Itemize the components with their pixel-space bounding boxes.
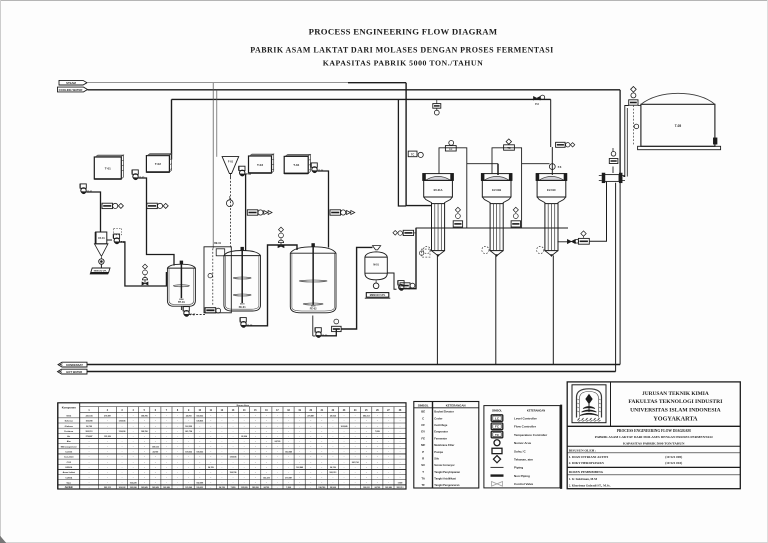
- svg-text:-: -: [233, 466, 234, 469]
- svg-text:1. Ir. Sukirman, M.M: 1. Ir. Sukirman, M.M: [569, 477, 597, 481]
- svg-text:-: -: [344, 456, 345, 459]
- svg-text:-: -: [155, 471, 156, 474]
- svg-text:-: -: [344, 414, 345, 417]
- svg-text:Tangki Pengenceran: Tangki Pengenceran: [434, 483, 460, 487]
- svg-text:241,724: 241,724: [86, 414, 94, 417]
- svg-text:KETERANGAN: KETERANGAN: [527, 409, 545, 413]
- svg-text:-: -: [177, 476, 178, 479]
- svg-text:-: -: [233, 435, 234, 438]
- svg-text:28,904: 28,904: [330, 486, 337, 489]
- svg-text:-: -: [266, 435, 267, 438]
- svg-text:Glukosa: Glukosa: [65, 426, 74, 428]
- svg-text:24,769: 24,769: [186, 414, 192, 417]
- svg-text:SiO2: SiO2: [66, 415, 72, 417]
- svg-text:24,769: 24,769: [330, 466, 336, 469]
- svg-text:-: -: [233, 420, 234, 423]
- svg-text:PABRIK ASAM LAKTAT DARI MOLASE: PABRIK ASAM LAKTAT DARI MOLASES DENGAN P…: [250, 45, 553, 54]
- svg-text:-: -: [177, 482, 178, 485]
- svg-text:-: -: [89, 476, 90, 479]
- svg-text:Piping: Piping: [514, 466, 523, 470]
- svg-text:LC: LC: [449, 148, 452, 151]
- svg-text:Evaporator: Evaporator: [434, 430, 448, 434]
- svg-text:-: -: [344, 435, 345, 438]
- svg-text:582,313: 582,313: [86, 431, 93, 433]
- svg-text:162,849: 162,849: [385, 486, 392, 489]
- svg-text:Cooler: Cooler: [434, 416, 442, 420]
- svg-text:7,899: 7,899: [231, 487, 236, 489]
- svg-text:-: -: [155, 456, 156, 459]
- svg-text:-: -: [377, 461, 378, 464]
- svg-text:-: -: [266, 425, 267, 428]
- svg-text:T-04: T-04: [293, 163, 299, 167]
- svg-text:582,313: 582,313: [104, 487, 111, 489]
- svg-text:-: -: [344, 471, 345, 474]
- svg-text:182,098: 182,098: [130, 487, 137, 489]
- svg-text:(10 521 005): (10 521 005): [665, 455, 682, 459]
- svg-text:P: P: [422, 450, 424, 454]
- svg-text:-: -: [377, 414, 378, 417]
- svg-text:-: -: [89, 445, 90, 448]
- svg-text:-: -: [377, 420, 378, 423]
- svg-text:M-01: M-01: [373, 264, 379, 267]
- svg-text:-: -: [321, 445, 322, 448]
- svg-text:T: T: [422, 470, 424, 474]
- svg-text:EV-01B: EV-01B: [492, 188, 501, 192]
- svg-text:KONDENSAT: KONDENSAT: [66, 363, 83, 367]
- svg-text:-: -: [266, 451, 267, 454]
- svg-text:-: -: [233, 440, 234, 443]
- svg-text:28,904: 28,904: [241, 435, 248, 438]
- svg-text:-: -: [155, 425, 156, 428]
- svg-text:FAKULTAS TEKNOLOGI INDUSTRI: FAKULTAS TEKNOLOGI INDUSTRI: [628, 399, 722, 405]
- svg-text:-: -: [177, 451, 178, 454]
- svg-text:162,849: 162,849: [163, 486, 170, 489]
- svg-text:279,887: 279,887: [104, 415, 111, 417]
- svg-text:-: -: [266, 482, 267, 485]
- svg-text:TA: TA: [421, 477, 425, 481]
- svg-text:1. DIAN FITRIANI ASTITI: 1. DIAN FITRIANI ASTITI: [569, 455, 609, 459]
- svg-text:-: -: [321, 461, 322, 464]
- svg-text:-: -: [210, 420, 211, 423]
- svg-text:-: -: [89, 440, 90, 443]
- svg-text:-: -: [344, 430, 345, 433]
- svg-text:169,032: 169,032: [196, 415, 203, 417]
- svg-text:Screw Conveyor: Screw Conveyor: [434, 463, 454, 467]
- svg-text:24,769: 24,769: [208, 466, 214, 469]
- svg-text:-: -: [377, 456, 378, 459]
- svg-text:Asam Laktat: Asam Laktat: [63, 471, 76, 474]
- svg-text:2. Kharisma Gulyadi ST., M.Sc.: 2. Kharisma Gulyadi ST., M.Sc.: [569, 483, 611, 487]
- svg-text:-: -: [266, 471, 267, 474]
- svg-text:-: -: [266, 456, 267, 459]
- svg-text:-: -: [233, 482, 234, 485]
- svg-text:-: -: [288, 482, 289, 485]
- svg-text:-: -: [288, 445, 289, 448]
- svg-text:162,849: 162,849: [341, 425, 348, 428]
- svg-text:UNIVERSITAS ISLAM INDONESIA: UNIVERSITAS ISLAM INDONESIA: [630, 407, 721, 413]
- svg-text:-: -: [288, 456, 289, 459]
- svg-text:2. DIKY HERDIYAWAN: 2. DIKY HERDIYAWAN: [569, 461, 605, 465]
- svg-text:-: -: [233, 430, 234, 433]
- svg-text:-: -: [177, 435, 178, 438]
- svg-text:-: -: [89, 456, 90, 459]
- svg-text:582,313: 582,313: [363, 415, 370, 417]
- svg-text:182,098: 182,098: [252, 487, 259, 489]
- svg-text:TF: TF: [421, 483, 425, 487]
- svg-text:-: -: [377, 476, 378, 479]
- svg-text:P-03: P-03: [246, 174, 252, 176]
- svg-text:COOLING WATER: COOLING WATER: [59, 88, 83, 92]
- svg-text:T-05: T-05: [675, 124, 682, 128]
- svg-text:-: -: [155, 414, 156, 417]
- svg-text:-: -: [377, 440, 378, 443]
- svg-text:-: -: [89, 461, 90, 464]
- svg-text:198,786: 198,786: [141, 431, 148, 433]
- svg-text:182,098: 182,098: [196, 483, 203, 485]
- svg-text:SIMBOL: SIMBOL: [492, 409, 503, 413]
- svg-text:-: -: [210, 476, 211, 479]
- svg-text:-: -: [344, 482, 345, 485]
- svg-text:FE-01: FE-01: [239, 306, 246, 309]
- svg-text:JURUSAN TEKNIK KIMIA: JURUSAN TEKNIK KIMIA: [642, 391, 709, 397]
- svg-text:Bucket Elevator: Bucket Elevator: [434, 410, 454, 414]
- svg-text:EV: EV: [421, 430, 425, 434]
- svg-text:-: -: [89, 482, 90, 485]
- svg-text:BE-01: BE-01: [214, 242, 221, 245]
- svg-text:-: -: [344, 451, 345, 454]
- svg-text:-: -: [321, 440, 322, 443]
- svg-text:109,032: 109,032: [152, 446, 159, 448]
- svg-text:-: -: [266, 440, 267, 443]
- svg-text:Ca-Laktat: Ca-Laktat: [64, 456, 74, 459]
- svg-text:CF-01: CF-01: [98, 237, 105, 240]
- svg-text:279,887: 279,887: [307, 415, 314, 417]
- svg-text:TC: TC: [507, 147, 510, 150]
- svg-text:-: -: [377, 451, 378, 454]
- svg-text:-: -: [122, 456, 123, 459]
- svg-text:-: -: [377, 482, 378, 485]
- svg-text:162,849: 162,849: [285, 451, 292, 454]
- svg-text:-: -: [344, 440, 345, 443]
- svg-text:-: -: [177, 425, 178, 428]
- svg-text:DISUSUN OLEH :: DISUSUN OLEH :: [569, 448, 597, 452]
- svg-text:T-03: T-03: [257, 163, 263, 167]
- svg-text:-: -: [155, 476, 156, 479]
- svg-text:Level Controller: Level Controller: [514, 416, 538, 420]
- svg-text:MF: MF: [421, 443, 425, 447]
- svg-text:-: -: [233, 445, 234, 448]
- svg-text:PROCESS ENGINEERING FLOW DIAGR: PROCESS ENGINEERING FLOW DIAGRAM: [617, 429, 692, 433]
- svg-text:109,032: 109,032: [363, 487, 370, 489]
- svg-text:-: -: [122, 482, 123, 485]
- svg-text:-: -: [210, 425, 211, 428]
- svg-text:279,887: 279,887: [86, 436, 93, 438]
- svg-text:P-6: P-6: [535, 103, 539, 106]
- svg-text:Tekanan, atm: Tekanan, atm: [514, 457, 533, 461]
- svg-text:KAPASITAS PABRIK 5000 TON./TAH: KAPASITAS PABRIK 5000 TON./TAHUN: [323, 59, 484, 68]
- svg-text:HOT WATER: HOT WATER: [66, 370, 82, 374]
- svg-text:24,769: 24,769: [374, 486, 380, 489]
- svg-text:-: -: [344, 476, 345, 479]
- svg-text:-: -: [266, 414, 267, 417]
- svg-text:-: -: [122, 435, 123, 438]
- svg-text:Tangki Asidifikasi: Tangki Asidifikasi: [434, 477, 456, 481]
- svg-text:-: -: [210, 435, 211, 438]
- svg-text:125,269: 125,269: [185, 487, 192, 489]
- svg-text:Air: Air: [67, 435, 70, 438]
- svg-text:C: C: [422, 416, 424, 420]
- svg-text:198,786: 198,786: [230, 472, 237, 474]
- svg-text:-: -: [122, 471, 123, 474]
- svg-text:-: -: [288, 420, 289, 423]
- svg-text:241,724: 241,724: [185, 430, 193, 433]
- svg-text:-: -: [321, 425, 322, 428]
- svg-text:Non Piping: Non Piping: [514, 474, 530, 478]
- svg-text:-: -: [377, 445, 378, 448]
- svg-text:Komponen: Komponen: [62, 405, 76, 409]
- svg-text:PABRIK ASAM LAKTAT DARI MOLASE: PABRIK ASAM LAKTAT DARI MOLASES DENGAN P…: [595, 435, 714, 439]
- svg-text:-: -: [321, 430, 322, 433]
- svg-text:TC: TC: [411, 154, 415, 157]
- svg-text:C-01: C-01: [609, 179, 615, 181]
- svg-text:-: -: [177, 466, 178, 469]
- svg-text:Nomor Arus: Nomor Arus: [237, 404, 250, 407]
- svg-text:162,849: 162,849: [152, 486, 159, 489]
- svg-text:-: -: [155, 440, 156, 443]
- svg-text:24,769: 24,769: [86, 425, 92, 428]
- svg-text:-: -: [122, 466, 123, 469]
- svg-text:-: -: [266, 420, 267, 423]
- svg-text:F-01: F-01: [228, 161, 234, 164]
- svg-text:582,313: 582,313: [397, 487, 404, 489]
- svg-text:109,032: 109,032: [185, 452, 192, 454]
- svg-text:Fermenter: Fermenter: [434, 436, 447, 440]
- svg-text:TP-01: TP-01: [178, 301, 185, 304]
- svg-text:139,836: 139,836: [230, 457, 237, 459]
- svg-text:SIMBOL: SIMBOL: [418, 403, 429, 407]
- svg-text:-: -: [177, 440, 178, 443]
- svg-text:109,032: 109,032: [196, 487, 203, 489]
- svg-text:-: -: [266, 461, 267, 464]
- svg-text:-: -: [288, 471, 289, 474]
- svg-text:139,836: 139,836: [119, 421, 126, 423]
- svg-text:CaSO4: CaSO4: [65, 476, 73, 479]
- svg-text:-: -: [266, 430, 267, 433]
- svg-text:28,904: 28,904: [330, 414, 337, 417]
- svg-text:-: -: [377, 466, 378, 469]
- svg-text:Centrifuge: Centrifuge: [434, 423, 448, 427]
- svg-text:Flow Controller: Flow Controller: [514, 425, 537, 429]
- svg-text:-: -: [177, 420, 178, 423]
- svg-text:-: -: [321, 435, 322, 438]
- svg-text:-: -: [377, 471, 378, 474]
- svg-text:MENUJU UPL: MENUJU UPL: [370, 294, 386, 297]
- svg-text:-: -: [89, 471, 90, 474]
- svg-text:CaCO3: CaCO3: [65, 452, 73, 454]
- svg-text:H2SO4: H2SO4: [65, 466, 73, 469]
- svg-text:-: -: [288, 440, 289, 443]
- svg-text:KETERANGAN: KETERANGAN: [446, 403, 466, 407]
- svg-text:162,849: 162,849: [296, 466, 303, 469]
- svg-text:-: -: [377, 425, 378, 428]
- svg-text:-: -: [266, 445, 267, 448]
- svg-text:-: -: [210, 445, 211, 448]
- svg-text:YOGYAKARTA: YOGYAKARTA: [653, 416, 698, 423]
- svg-text:-: -: [321, 420, 322, 423]
- svg-text:-: -: [377, 435, 378, 438]
- svg-text:-: -: [321, 451, 322, 454]
- svg-text:7,899: 7,899: [286, 487, 291, 489]
- svg-text:DOSEN PEMBIMBING: DOSEN PEMBIMBING: [569, 470, 604, 474]
- svg-text:-: -: [155, 430, 156, 433]
- svg-text:241,724: 241,724: [352, 461, 360, 464]
- svg-text:162,849: 162,849: [141, 486, 148, 489]
- svg-text:STEAM: STEAM: [66, 81, 76, 85]
- svg-text:-: -: [288, 461, 289, 464]
- svg-text:-: -: [233, 461, 234, 464]
- svg-text:139,836: 139,836: [119, 431, 126, 433]
- svg-text:7,899: 7,899: [398, 483, 403, 485]
- svg-text:162,229: 162,229: [263, 477, 270, 479]
- svg-text:-: -: [344, 420, 345, 423]
- svg-text:Tangki Penyimpanan: Tangki Penyimpanan: [434, 470, 460, 474]
- svg-text:-: -: [288, 425, 289, 428]
- svg-text:BE: BE: [421, 410, 425, 414]
- svg-text:-: -: [155, 466, 156, 469]
- svg-text:Temperature Controller: Temperature Controller: [514, 433, 548, 437]
- svg-text:-: -: [210, 482, 211, 485]
- svg-text:-: -: [210, 451, 211, 454]
- svg-text:-: -: [266, 466, 267, 469]
- svg-text:-: -: [210, 414, 211, 417]
- svg-text:-: -: [233, 414, 234, 417]
- svg-text:CF: CF: [421, 423, 425, 427]
- svg-text:-: -: [122, 445, 123, 448]
- svg-text:Control Valve: Control Valve: [514, 482, 534, 486]
- svg-text:24,769: 24,769: [263, 486, 269, 489]
- svg-text:-: -: [155, 461, 156, 464]
- svg-text:-: -: [210, 456, 211, 459]
- svg-text:Jumlah: Jumlah: [65, 486, 74, 489]
- svg-text:125,269: 125,269: [104, 436, 111, 438]
- svg-text:Fruktosa: Fruktosa: [64, 430, 74, 433]
- svg-text:-: -: [321, 456, 322, 459]
- svg-text:-: -: [177, 471, 178, 474]
- svg-text:Pompa: Pompa: [434, 450, 443, 454]
- svg-text:279,887: 279,887: [285, 477, 292, 479]
- svg-text:EV-01A: EV-01A: [434, 188, 443, 192]
- svg-text:162,229: 162,229: [185, 426, 192, 428]
- svg-text:-: -: [288, 466, 289, 469]
- svg-text:182,098: 182,098: [86, 421, 93, 423]
- svg-text:FE: FE: [421, 436, 425, 440]
- svg-text:T-02: T-02: [155, 162, 161, 166]
- svg-text:-: -: [122, 451, 123, 454]
- svg-text:Mikroorganisme: Mikroorganisme: [61, 445, 78, 448]
- svg-text:7,899: 7,899: [375, 431, 380, 433]
- svg-text:-: -: [321, 476, 322, 479]
- svg-text:-: -: [321, 482, 322, 485]
- svg-text:-: -: [89, 451, 90, 454]
- svg-text:-: -: [288, 430, 289, 433]
- svg-text:Sukrosa: Sukrosa: [65, 420, 74, 423]
- svg-text:T-01: T-01: [105, 166, 111, 170]
- svg-text:-: -: [210, 461, 211, 464]
- svg-text:-: -: [155, 435, 156, 438]
- svg-text:198,786: 198,786: [141, 415, 148, 417]
- svg-text:-: -: [321, 471, 322, 474]
- svg-text:-: -: [177, 461, 178, 464]
- svg-text:-: -: [288, 414, 289, 417]
- svg-text:(10 521 010): (10 521 010): [665, 461, 682, 465]
- svg-text:198,786: 198,786: [318, 487, 325, 489]
- svg-text:Silo: Silo: [434, 456, 439, 460]
- svg-text:-: -: [233, 451, 234, 454]
- svg-text:-: -: [210, 471, 211, 474]
- svg-text:-: -: [344, 461, 345, 464]
- svg-text:125,269: 125,269: [241, 487, 248, 489]
- svg-text:-: -: [122, 425, 123, 428]
- svg-text:-: -: [321, 414, 322, 417]
- svg-text:-: -: [177, 430, 178, 433]
- svg-text:-: -: [122, 440, 123, 443]
- svg-text:24,769: 24,769: [275, 440, 281, 443]
- svg-text:139,836: 139,836: [196, 421, 203, 423]
- svg-text:-: -: [233, 476, 234, 479]
- svg-text:-: -: [210, 440, 211, 443]
- svg-text:Nomor Arus: Nomor Arus: [514, 441, 532, 445]
- svg-text:-: -: [155, 420, 156, 423]
- svg-text:-: -: [233, 425, 234, 428]
- svg-text:-: -: [177, 456, 178, 459]
- svg-text:-: -: [177, 445, 178, 448]
- svg-text:-: -: [122, 461, 123, 464]
- svg-text:Membrane Filter: Membrane Filter: [434, 443, 454, 447]
- svg-text:EV-01C: EV-01C: [547, 188, 556, 192]
- svg-text:-: -: [288, 435, 289, 438]
- svg-text:-: -: [177, 414, 178, 417]
- svg-text:582,313: 582,313: [330, 472, 337, 474]
- svg-text:162,229: 162,229: [130, 483, 137, 485]
- svg-text:24,769: 24,769: [152, 451, 158, 454]
- svg-text:-: -: [344, 445, 345, 448]
- svg-text:R: R: [422, 456, 424, 460]
- svg-text:169,032: 169,032: [119, 487, 126, 489]
- svg-text:109,032: 109,032: [196, 452, 203, 454]
- svg-text:-: -: [321, 466, 322, 469]
- svg-text:-: -: [155, 482, 156, 485]
- svg-text:Abu: Abu: [67, 440, 72, 443]
- svg-text:Suhu,°C: Suhu,°C: [514, 449, 527, 453]
- svg-text:PROCESS ENGINEERING FLOW DIAGR: PROCESS ENGINEERING FLOW DIAGRAM: [309, 27, 498, 37]
- svg-text:24,769: 24,769: [219, 486, 225, 489]
- svg-text:-: -: [122, 414, 123, 417]
- svg-text:KAPASITAS PABRIK 5000 TON/TAHU: KAPASITAS PABRIK 5000 TON/TAHUN: [623, 441, 685, 445]
- svg-text:-: -: [122, 476, 123, 479]
- svg-text:-: -: [344, 466, 345, 469]
- svg-text:-: -: [89, 466, 90, 469]
- svg-text:-: -: [210, 430, 211, 433]
- svg-text:FE-02: FE-02: [310, 308, 317, 311]
- svg-text:SC: SC: [421, 463, 425, 467]
